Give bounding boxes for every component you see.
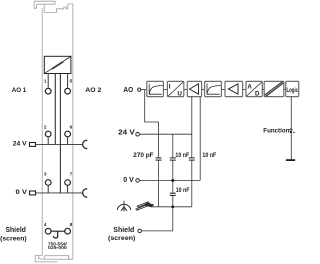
junction column B / 0V [171, 179, 174, 182]
svg-text:2: 2 [44, 125, 47, 130]
wire: column C upper (riser crossing, cap) [191, 134, 193, 158]
svg-text:7: 7 [70, 171, 73, 176]
svg-text:3: 3 [44, 171, 47, 176]
terminal 4 [45, 228, 51, 234]
wire: 0V row [36, 192, 83, 194]
svg-text:AO: AO [123, 87, 133, 94]
wire: column B upper (24V to cap) [172, 134, 174, 158]
function line terminal bar [286, 159, 295, 161]
module housing outline (top profile) [34, 1, 73, 12]
capacitor 10nF (24V-shield) [189, 158, 195, 160]
terminal 6 [65, 131, 71, 137]
wire: shield link bar [51, 230, 65, 232]
svg-text:10 nF: 10 nF [175, 152, 189, 159]
wire: column B lower to shield wire [141, 195, 172, 231]
svg-text:Shield: Shield [113, 227, 134, 234]
shield hook symbol [54, 231, 58, 238]
module housing right edge [72, 4, 74, 259]
svg-text:AO 2: AO 2 [85, 87, 101, 94]
node shield [138, 229, 142, 233]
capacitor 10nF (24V-0V) [170, 158, 176, 160]
wire: terminal2 stem [47, 137, 49, 145]
wire: pin1 stem [47, 74, 49, 89]
svg-text:6: 6 [70, 125, 73, 130]
box B4 filter [205, 81, 222, 96]
wire: shield bus [152, 206, 192, 208]
svg-text:24 V: 24 V [13, 140, 27, 147]
wire: 24V row [36, 143, 83, 145]
wire: internal 24V bus [54, 74, 56, 145]
svg-text:AO 1: AO 1 [12, 87, 27, 94]
module housing left edge [41, 8, 43, 255]
box B7 galvanic isolation [264, 81, 284, 96]
svg-text:I: I [169, 84, 171, 91]
svg-text:10 nF: 10 nF [176, 187, 190, 194]
wire: terminal6 stem [67, 137, 69, 145]
wire: AO to chain [141, 89, 147, 91]
shield clamp tool symbol [136, 202, 154, 210]
wire: b1-b2 [163, 89, 167, 91]
node 0V [136, 179, 140, 183]
terminal 1 [45, 88, 51, 94]
wire: b5-b6 [243, 89, 246, 91]
terminal 3 [45, 180, 51, 186]
box B1 filter [147, 81, 164, 96]
wire: pin5 stem [67, 74, 69, 89]
svg-text:025-000: 025-000 [48, 245, 67, 250]
wire: terminal7 stem [67, 185, 69, 193]
box B8 logic [286, 81, 299, 96]
svg-text:0 V: 0 V [16, 189, 28, 196]
svg-text:8: 8 [70, 222, 73, 227]
isolation block U1 (box with diagonal) [44, 56, 71, 73]
svg-text:(screen): (screen) [0, 235, 27, 242]
wire: b2-b3 [184, 89, 188, 91]
svg-text:10 nF: 10 nF [202, 152, 216, 159]
wire: 24V rail [139, 133, 192, 135]
wire: b3-b4 [202, 89, 205, 91]
24V field connector square [30, 143, 36, 147]
svg-text:0 V: 0 V [123, 177, 134, 184]
svg-text:4: 4 [44, 222, 47, 227]
svg-text:A: A [247, 83, 252, 90]
svg-text:270 pF: 270 pF [133, 152, 153, 159]
svg-text:5: 5 [70, 79, 73, 84]
junction column B / shield bus [171, 205, 174, 208]
wire: 0V riser to amplifier [199, 97, 201, 181]
svg-text:1: 1 [44, 79, 47, 84]
0V field connector square [30, 191, 36, 195]
svg-text:(screen): (screen) [108, 235, 135, 242]
svg-text:Shield: Shield [6, 227, 26, 234]
wire: b6-b7 [262, 89, 264, 91]
terminal 2 [45, 131, 51, 137]
capacitor 270pF [156, 158, 162, 160]
0V power jumper contact arc [83, 189, 87, 197]
wire: b7-b8 [284, 89, 286, 91]
wire: internal 0V bus [59, 74, 61, 193]
box B2 I/U converter [167, 81, 183, 97]
wire: 0V rail [139, 179, 200, 181]
wire: terminal3 stem [47, 185, 49, 193]
terminal 8 [65, 228, 71, 234]
node 24V [136, 132, 140, 136]
svg-text:Logic: Logic [287, 87, 299, 94]
svg-text:D: D [255, 91, 260, 98]
wire: 24V riser to amplifier [191, 97, 193, 135]
box B6 D/A converter [246, 81, 262, 97]
node AO [138, 88, 141, 91]
box B5 amplifier [225, 81, 243, 96]
svg-text:Function: Function [263, 128, 289, 135]
svg-text:U: U [177, 91, 182, 98]
shield screen symbol [117, 201, 131, 212]
terminal 5 [65, 88, 71, 94]
wire: column B mid [172, 160, 174, 193]
module housing bottom profile [35, 255, 73, 262]
capacitor 10nF (0V-shield) [170, 193, 176, 195]
svg-text:24 V: 24 V [118, 128, 135, 137]
box B3 output amplifier [187, 81, 201, 96]
wire: AO tap with jog [145, 90, 159, 158]
24V power jumper contact arc [83, 140, 87, 148]
wire: b4-b5 [221, 89, 225, 91]
function select symbol [290, 129, 295, 133]
wire: 270pF to shield bus [158, 160, 160, 207]
wire: function line [290, 97, 292, 160]
wire: column C lower [191, 160, 193, 207]
terminal 7 [65, 180, 71, 186]
